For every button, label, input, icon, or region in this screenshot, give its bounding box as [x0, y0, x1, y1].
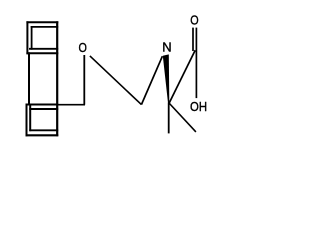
ring bottom square inner top line: [29, 108, 58, 110]
ring bottom square outer top edge: [26, 104, 59, 106]
bond quaternary C to carboxyl C diagonal: [169, 50, 195, 103]
ring top square outer bottom edge: [26, 52, 58, 54]
ring top square inner bottom double-bond line: [29, 48, 58, 50]
bond ether corner vertical up to O: [83, 55, 85, 105]
ring bottom square inner bottom line: [29, 129, 58, 131]
svg-text:N: N: [162, 40, 171, 55]
ring bottom square inner left line: [29, 105, 31, 131]
ring top square outer top edge: [26, 21, 58, 23]
carbonyl double bond left line: [192, 28, 194, 51]
ring bottom square outer left edge: [26, 104, 28, 137]
bond CH2 up to N diagonal: [141, 56, 162, 104]
ring top square outer left edge: [26, 21, 28, 54]
ring top square inner top double-bond line: [31, 26, 59, 28]
ring right vertical full height: [56, 21, 58, 136]
bond ring to ether corner horizontal: [57, 104, 85, 106]
methyl bond straight down: [168, 103, 170, 134]
ring top square inner left double-bond line: [31, 26, 33, 50]
svg-text:OH: OH: [190, 99, 207, 114]
bond O to CH2 diagonal: [90, 56, 141, 105]
ring bottom square outer bottom edge: [26, 134, 59, 136]
wedge bond N to quaternary C: [163, 54, 170, 103]
methyl bond down-right diagonal: [169, 103, 196, 132]
svg-text:O: O: [78, 40, 86, 55]
carbonyl right line plus C-OH bond vertical: [195, 28, 197, 99]
svg-text:O: O: [190, 13, 198, 28]
ring middle-left vertical bond: [28, 52, 30, 105]
